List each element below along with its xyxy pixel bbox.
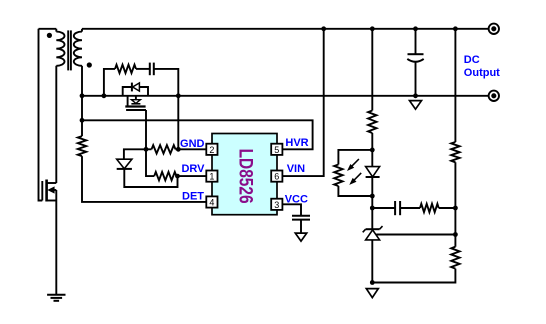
- svg-text:DC: DC: [464, 54, 480, 66]
- svg-text:GND: GND: [180, 138, 205, 150]
- svg-text:HVR: HVR: [285, 137, 308, 149]
- svg-text:2: 2: [209, 145, 214, 155]
- svg-text:DRV: DRV: [181, 163, 205, 175]
- svg-text:3: 3: [274, 200, 279, 210]
- svg-text:1: 1: [209, 172, 214, 182]
- svg-text:LD8526: LD8526: [234, 149, 255, 204]
- svg-text:4: 4: [209, 198, 214, 208]
- svg-text:5: 5: [274, 145, 279, 155]
- svg-text:VIN: VIN: [287, 163, 305, 175]
- svg-text:DET: DET: [182, 191, 204, 203]
- svg-text:Output: Output: [464, 67, 500, 79]
- svg-text:6: 6: [274, 172, 279, 182]
